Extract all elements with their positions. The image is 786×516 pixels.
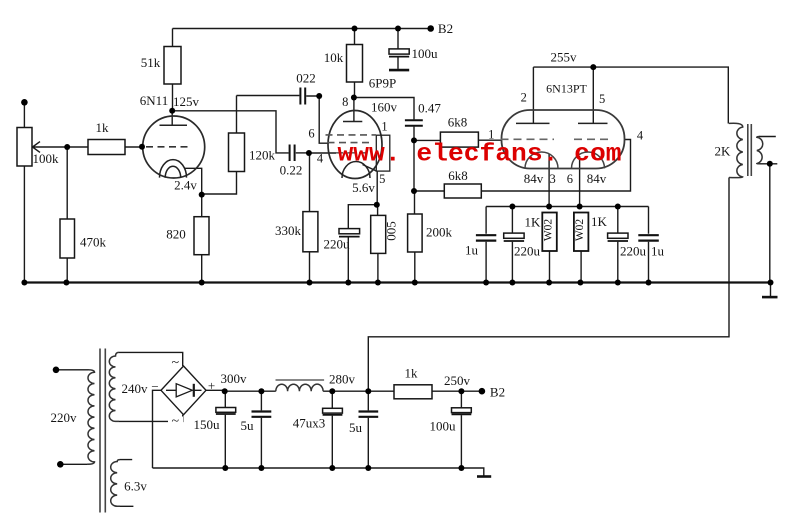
svg-text:005: 005 — [384, 221, 399, 241]
svg-text:B2: B2 — [438, 21, 453, 36]
svg-text:120k: 120k — [249, 148, 276, 163]
svg-text:6N13PT: 6N13PT — [546, 82, 587, 96]
svg-text:200k: 200k — [426, 225, 453, 240]
svg-text:84v: 84v — [524, 171, 544, 186]
svg-text:220u: 220u — [324, 237, 351, 252]
svg-text:47ux3: 47ux3 — [293, 416, 326, 431]
svg-text:5: 5 — [599, 92, 605, 106]
svg-text:5.6v: 5.6v — [352, 180, 375, 195]
svg-text:300v: 300v — [221, 371, 248, 386]
svg-text:280v: 280v — [329, 372, 356, 387]
svg-text:1: 1 — [381, 120, 387, 134]
svg-text:0.22: 0.22 — [280, 163, 303, 178]
svg-text:8: 8 — [342, 95, 348, 109]
svg-text:2: 2 — [521, 91, 527, 105]
svg-text:160v: 160v — [371, 100, 398, 115]
svg-text:5u: 5u — [349, 420, 363, 435]
svg-text:5u: 5u — [241, 418, 255, 433]
svg-text:330k: 330k — [275, 223, 302, 238]
svg-text:84v: 84v — [587, 171, 607, 186]
svg-text:1K: 1K — [525, 215, 542, 230]
svg-text:6P9P: 6P9P — [369, 76, 396, 91]
svg-text:2K: 2K — [715, 144, 732, 159]
svg-text:3: 3 — [549, 172, 555, 186]
svg-text:820: 820 — [166, 227, 186, 242]
svg-text:1u: 1u — [465, 243, 479, 258]
svg-text:+: + — [208, 378, 215, 393]
svg-text:0.47: 0.47 — [418, 101, 441, 116]
svg-text:1K: 1K — [591, 214, 608, 229]
svg-text:1u: 1u — [651, 244, 665, 259]
svg-text:6: 6 — [567, 172, 573, 186]
svg-text:150u: 150u — [194, 417, 221, 432]
svg-text:220v: 220v — [51, 410, 78, 425]
svg-text:6N11: 6N11 — [140, 93, 168, 108]
svg-text:250v: 250v — [444, 373, 471, 388]
svg-text:10k: 10k — [324, 50, 344, 65]
svg-text:6k8: 6k8 — [448, 115, 468, 130]
svg-text:240v: 240v — [122, 381, 149, 396]
svg-text:1k: 1k — [405, 366, 419, 381]
svg-text:B2: B2 — [490, 385, 505, 400]
svg-text:470k: 470k — [80, 235, 107, 250]
svg-text:−: − — [151, 379, 158, 394]
svg-text:4: 4 — [637, 129, 644, 143]
svg-text:100u: 100u — [412, 46, 439, 61]
svg-text:022: 022 — [296, 71, 316, 86]
svg-text:125v: 125v — [173, 94, 200, 109]
svg-text:100k: 100k — [33, 151, 60, 166]
svg-text:4: 4 — [317, 152, 324, 166]
svg-text:6: 6 — [308, 127, 314, 141]
svg-text:51k: 51k — [141, 55, 161, 70]
svg-text:W02: W02 — [543, 219, 555, 242]
svg-text:220u: 220u — [620, 244, 647, 259]
svg-text:220u: 220u — [514, 244, 541, 259]
svg-text:2.4v: 2.4v — [174, 178, 197, 193]
svg-text:100u: 100u — [430, 419, 457, 434]
svg-text:255v: 255v — [551, 50, 578, 65]
svg-text:1k: 1k — [96, 120, 110, 135]
svg-text:6k8: 6k8 — [448, 168, 468, 183]
svg-text:W02: W02 — [574, 219, 586, 242]
svg-text:6.3v: 6.3v — [124, 479, 147, 494]
svg-text:www. elecfans. com: www. elecfans. com — [338, 140, 622, 169]
svg-text:5: 5 — [379, 172, 385, 186]
svg-text:~: ~ — [172, 356, 180, 371]
svg-text:~: ~ — [172, 414, 180, 429]
